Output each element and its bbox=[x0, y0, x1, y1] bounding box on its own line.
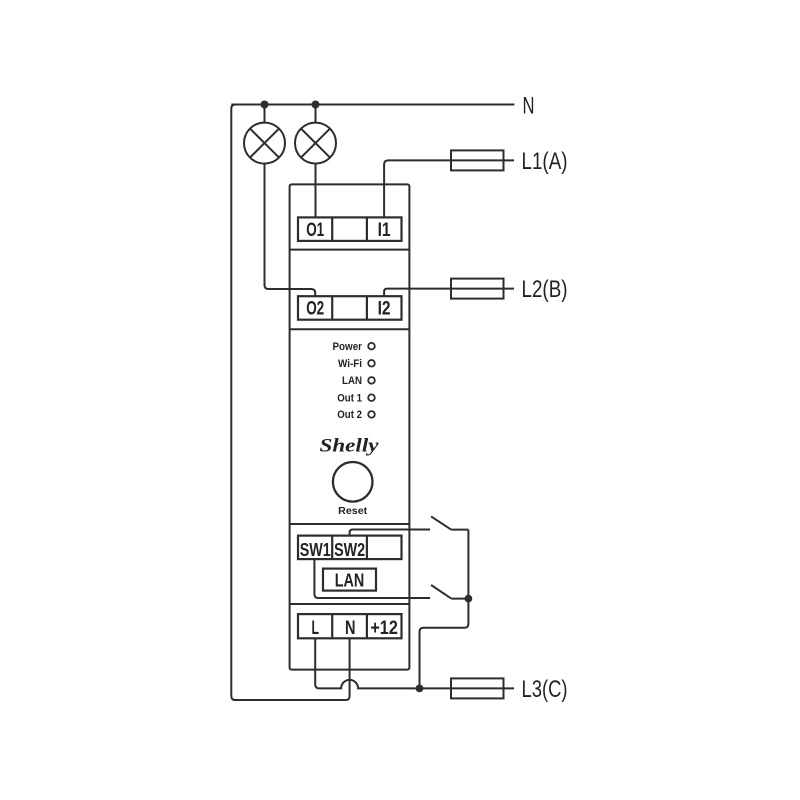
svg-text:Out 1: Out 1 bbox=[337, 393, 362, 405]
wire lamp E1 to N bus bbox=[264, 105, 266, 123]
svg-text:LAN: LAN bbox=[342, 375, 362, 387]
switch S2 bbox=[431, 585, 468, 599]
LED indicator Wi-Fi bbox=[368, 360, 375, 367]
svg-text:L2(B): L2(B) bbox=[522, 276, 568, 303]
svg-text:N: N bbox=[345, 618, 356, 639]
wire lamp E1 to terminal O2 bbox=[265, 164, 316, 297]
svg-text:Out 2: Out 2 bbox=[337, 409, 362, 421]
svg-text:LAN: LAN bbox=[335, 569, 365, 590]
module section line 4 bbox=[290, 603, 410, 605]
lamp E1 bbox=[244, 123, 285, 164]
svg-text:O1: O1 bbox=[306, 220, 324, 241]
wire terminal SW1 to switch S2 bbox=[314, 559, 430, 598]
terminal block row L/N/+12 bbox=[298, 614, 402, 638]
LAN port box bbox=[323, 569, 376, 591]
svg-text:I1: I1 bbox=[378, 220, 391, 241]
terminal block row O1/I1 bbox=[298, 217, 402, 241]
node junction dot lamp E1 on N bus bbox=[261, 101, 269, 109]
svg-text:I2: I2 bbox=[378, 299, 391, 320]
svg-text:+12: +12 bbox=[370, 618, 398, 639]
node junction dot lamp E2 on N bus bbox=[312, 101, 320, 109]
wire lamp E2 to N bus bbox=[315, 105, 317, 123]
fuse F1 bbox=[450, 150, 514, 170]
svg-text:Power: Power bbox=[333, 341, 363, 353]
terminal block row SW1/SW2 bbox=[298, 536, 402, 560]
fuse F2 bbox=[450, 279, 514, 299]
svg-text:L: L bbox=[311, 618, 319, 639]
wire terminal L to fuse F3 with hop over N wire bbox=[315, 638, 450, 688]
module section line 1 bbox=[290, 249, 410, 251]
svg-text:N: N bbox=[523, 93, 535, 120]
svg-text:SW1: SW1 bbox=[300, 539, 331, 560]
reset button bbox=[333, 462, 373, 502]
wire lamp E2 to terminal O1 bbox=[315, 164, 317, 218]
wire terminal I1 to fuse F1 bbox=[384, 160, 450, 217]
node junction dot switch bus bbox=[465, 595, 473, 603]
terminal block row O2/I2 bbox=[298, 296, 402, 320]
module section line 2 bbox=[290, 328, 410, 330]
LED indicator Power bbox=[368, 343, 375, 350]
svg-text:L3(C): L3(C) bbox=[522, 676, 568, 703]
svg-text:Reset: Reset bbox=[338, 505, 367, 517]
LED indicator Out 1 bbox=[368, 394, 375, 401]
wire N top bus bbox=[231, 104, 514, 106]
svg-text:O2: O2 bbox=[306, 299, 324, 320]
switch S1 bbox=[431, 516, 468, 529]
svg-text:Wi-Fi: Wi-Fi bbox=[338, 358, 362, 370]
module U1 Shelly Pro 2 outline bbox=[290, 184, 410, 669]
wire switch bus S1 to S2 bbox=[467, 530, 469, 599]
LED indicator Out 2 bbox=[368, 411, 375, 418]
node junction dot L wire bbox=[416, 685, 424, 693]
svg-text:SW2: SW2 bbox=[334, 539, 365, 560]
lamp E2 bbox=[295, 123, 336, 164]
LED indicator LAN bbox=[368, 377, 375, 384]
wire switch bus to L node bbox=[420, 599, 469, 689]
svg-text:L1(A): L1(A) bbox=[522, 148, 568, 175]
wire terminal SW2 to switch S1 bbox=[350, 530, 431, 536]
module section line 3 bbox=[290, 523, 410, 525]
wire N left vertical bbox=[231, 105, 235, 701]
fuse F3 bbox=[450, 678, 514, 698]
svg-text:Shelly: Shelly bbox=[320, 437, 380, 457]
wire terminal I2 to fuse F2 bbox=[384, 289, 450, 297]
wire N bottom return to N terminal bbox=[234, 638, 350, 700]
